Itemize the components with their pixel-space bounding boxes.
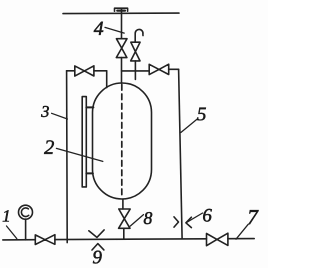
wire: from top-left valve right to vessel nozzle <box>94 70 107 72</box>
wire: bottom main pipe line (centre span) <box>55 238 207 241</box>
leader line for label 3 <box>52 113 68 119</box>
valve V8 (vertical drain valve) <box>119 209 131 228</box>
label 2 <box>44 140 54 154</box>
flow mark below bottom line at 9 (chevron up) <box>92 244 104 250</box>
valve (vertical, with swan neck) <box>131 42 140 61</box>
label 4 <box>94 22 103 35</box>
valve V4 (vertical gate valve) <box>116 39 127 58</box>
leader line for label 8 <box>130 215 143 227</box>
wire: nozzle drop into vessel top-left <box>106 71 108 88</box>
label 1 <box>3 210 9 221</box>
wire: bottom main pipe line (right of valve 7) <box>228 238 254 240</box>
wire: branch line from main stem to right valve <box>122 70 150 72</box>
leader arrow for label 6 <box>187 213 203 222</box>
leader line for label 5 <box>181 119 197 132</box>
valve (bottom left, horizontal gate valve) <box>35 235 55 245</box>
leader line for label 7 <box>236 224 248 239</box>
level gauge top connector <box>86 106 93 108</box>
wire: stem from valve 4 down to vessel top <box>121 58 123 84</box>
leader line for label 2 <box>56 148 102 161</box>
wire: gauge stem <box>25 219 27 240</box>
pressure gauge 1 (circle with C) <box>19 205 33 219</box>
valve (top right, horizontal gate valve) <box>149 64 169 74</box>
wire: left downcomer pipe <box>66 71 69 243</box>
label 5 <box>197 108 206 121</box>
junction mark 6: right chevron on right pipe (arrow head) <box>186 217 192 227</box>
level gauge 3: glass tube <box>82 97 86 187</box>
vessel 2 (capsule body) <box>93 83 152 199</box>
valve (top left, horizontal gate valve) <box>75 66 94 76</box>
wire: from top-right valve to right pipe corner <box>169 68 179 70</box>
junction mark 6: left chevron on right pipe <box>174 217 179 227</box>
label 3 <box>41 106 49 117</box>
vent/support symbol on top of stem above valve 4 <box>115 8 128 11</box>
valve V7 (horizontal gate valve, bottom right) <box>207 233 228 246</box>
swan-neck vent pipe <box>135 29 143 42</box>
level gauge bottom connector <box>86 172 93 174</box>
wire: swan valve stem down to branch line <box>134 61 136 80</box>
label 6 <box>203 209 212 222</box>
wire: valve 8 stem down to bottom line <box>123 228 125 239</box>
wire: bottom main pipe line (left of valve) <box>3 239 36 241</box>
wire: vessel bottom stem to valve 8 <box>122 199 124 209</box>
wire: stem from top symbol down to valve 4 <box>121 9 123 39</box>
wire: top-left branch corner to left valve <box>67 70 75 72</box>
leader line for label 4 <box>105 27 124 33</box>
wire: top horizontal header line <box>63 12 179 15</box>
flow mark above bottom line at 9 (chevron down) <box>89 230 104 238</box>
label 7 <box>248 210 258 224</box>
label 8 <box>144 212 152 224</box>
label 9 <box>93 251 102 264</box>
vessel centerline (dashed) <box>121 85 123 199</box>
leader line for label 1 <box>7 226 17 239</box>
wire: right downcomer pipe 5 <box>179 69 183 238</box>
